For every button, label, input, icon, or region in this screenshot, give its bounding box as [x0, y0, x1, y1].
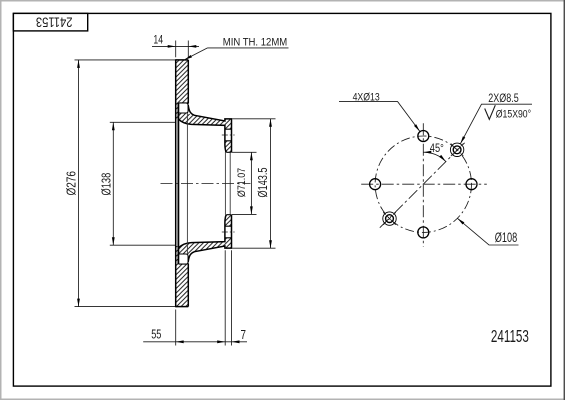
svg-text:45°: 45° [430, 143, 444, 155]
svg-text:4XØ13: 4XØ13 [353, 91, 380, 103]
svg-text:MIN TH. 12MM: MIN TH. 12MM [223, 37, 287, 49]
svg-text:241153: 241153 [491, 326, 529, 346]
svg-text:Ø71.07: Ø71.07 [236, 168, 248, 197]
svg-text:241153: 241153 [36, 14, 73, 30]
svg-text:Ø15X90°: Ø15X90° [496, 109, 531, 121]
svg-text:2XØ8.5: 2XØ8.5 [488, 91, 519, 105]
svg-text:7: 7 [241, 327, 247, 342]
svg-text:Ø138: Ø138 [98, 173, 113, 196]
svg-text:14: 14 [153, 33, 163, 47]
svg-text:Ø276: Ø276 [64, 171, 79, 196]
svg-text:Ø108: Ø108 [495, 230, 517, 245]
svg-text:Ø143.5: Ø143.5 [255, 168, 270, 198]
svg-text:55: 55 [151, 327, 161, 342]
